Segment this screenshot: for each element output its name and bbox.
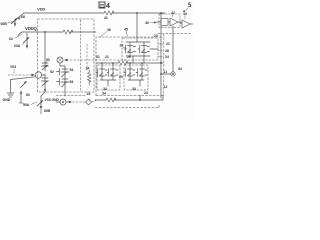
transistor cell3-L [124, 69, 135, 81]
cell3 down tick [139, 95, 141, 100]
svg-text:54: 54 [70, 68, 74, 72]
wire from pad down-left [11, 77, 36, 87]
VDD rail [24, 12, 165, 14]
transistor 50A (bottom left) [41, 92, 45, 108]
svg-text:54: 54 [70, 80, 74, 84]
svg-text:34: 34 [132, 87, 136, 91]
svg-text:60A: 60A [14, 44, 21, 48]
cell2 feeds [102, 63, 113, 69]
svg-text:VDD: VDD [37, 7, 45, 12]
mid rail [96, 62, 163, 64]
ground symbol far left [7, 87, 14, 97]
svg-text:34: 34 [103, 87, 107, 91]
VDDQ rail [22, 31, 96, 33]
buffer U1 [170, 18, 178, 26]
pad (filled) [171, 72, 175, 76]
cell3 bottom bus [128, 80, 144, 86]
wire [178, 22, 181, 24]
svg-text:28: 28 [165, 49, 169, 53]
svg-text:12: 12 [164, 85, 168, 89]
output node column [160, 62, 162, 64]
svg-text:31: 31 [96, 55, 100, 59]
node: junction on VDDQ [44, 31, 46, 33]
svg-text:GND: GND [3, 98, 11, 102]
dashed vertical control line 2 [86, 44, 88, 70]
wire pad up to receiver [172, 26, 174, 72]
pad circle (input V63) [35, 72, 41, 78]
cell2 bottom bus [100, 80, 116, 86]
svg-text:23: 23 [154, 34, 158, 38]
svg-text:34: 34 [102, 92, 106, 96]
cell1 bottom bus [126, 55, 150, 57]
wire chain x=65 [60, 63, 65, 69]
component 34 (vertical resistor) [88, 70, 91, 85]
svg-text:26: 26 [127, 55, 131, 59]
cell 2 dashed box [97, 65, 120, 90]
resistor (mid rail) [118, 61, 128, 65]
resistor (bottom rail) [106, 98, 116, 102]
svg-text:V63: V63 [10, 65, 16, 69]
svg-text:21: 21 [166, 42, 170, 46]
bottom pad circle [56, 101, 60, 103]
dashed top edge right segment [158, 33, 191, 35]
svg-text:54: 54 [178, 67, 182, 71]
dashed signal line to cells [67, 59, 128, 61]
svg-text:41: 41 [104, 16, 108, 20]
svg-text:34: 34 [86, 67, 90, 71]
svg-text:11: 11 [164, 70, 168, 74]
dashed box receiver [159, 14, 180, 28]
transistor arrow on left wire [21, 82, 27, 88]
transistor 54a [57, 69, 70, 80]
svg-text:VDDQ: VDDQ [25, 26, 38, 31]
svg-text:66B: 66B [1, 22, 8, 26]
cell1 output to right [150, 48, 158, 50]
transistor cell2-R [107, 69, 118, 81]
transistor 50 (upper, x=45) [42, 63, 49, 71]
svg-text:4: 4 [106, 3, 110, 10]
resistor (in VDDQ rail) [63, 30, 73, 34]
wire [168, 21, 170, 23]
cell3 feeds [130, 63, 142, 69]
svg-text:60: 60 [26, 93, 30, 97]
transistor cell1-R [138, 42, 150, 56]
pad circle 2 (node 50) [57, 57, 63, 63]
wire: left branch down [44, 32, 46, 63]
svg-text:50: 50 [46, 58, 50, 62]
svg-text:62: 62 [9, 37, 13, 41]
arrowhead input terminal [14, 23, 16, 26]
figure title 图4 [99, 2, 105, 8]
up arrow lead [20, 91, 22, 103]
transistor 54b [57, 79, 70, 97]
svg-text:24: 24 [165, 55, 169, 59]
wire: VDD left lead-in diagonal [15, 13, 24, 26]
svg-text:24: 24 [87, 92, 91, 96]
svg-text:36: 36 [107, 28, 111, 32]
cell 3 dashed box [124, 65, 148, 90]
diamond node [86, 99, 92, 105]
dashed box B (middle block 36) [96, 37, 163, 96]
svg-text:VSS GND: VSS GND [45, 98, 60, 102]
bottom rail (solid) [95, 95, 163, 100]
transistor cell2-L [96, 69, 107, 81]
buffer U2 [182, 20, 190, 28]
svg-text:21: 21 [105, 55, 109, 59]
svg-text:60B: 60B [44, 109, 51, 113]
arrow right [67, 101, 70, 103]
svg-text:68: 68 [21, 15, 25, 19]
cell1 top bus [126, 41, 150, 43]
dashed box A (left block) [38, 19, 95, 92]
transistor arrow stroke [24, 38, 30, 43]
svg-text:40: 40 [145, 21, 149, 25]
transistor cell3-R [136, 69, 147, 81]
dashed input arrow to pad [8, 74, 31, 76]
dashed to diamond [73, 101, 86, 103]
cell 1 dashed box [122, 38, 158, 60]
input arrow 60A branch [26, 33, 28, 48]
wire: VDDQ left lead-in [18, 32, 22, 36]
dashed continue [92, 101, 97, 103]
svg-text:50A: 50A [23, 103, 30, 107]
gate rect [161, 19, 168, 26]
transistor cell1-L [124, 42, 136, 56]
svg-text:52: 52 [50, 70, 54, 74]
svg-text:20: 20 [119, 75, 123, 79]
vertical feed x=137 from VDD [136, 12, 138, 14]
transistor 52 (lower, x=45) [42, 74, 49, 92]
dashed vertical control line [80, 20, 82, 92]
vertical feed x=161 from VDD [160, 12, 162, 14]
dashed outer bottom [95, 104, 159, 108]
input wire [157, 21, 161, 23]
dashed bottom edge (box B) [56, 95, 163, 97]
svg-text:24: 24 [144, 91, 148, 95]
resistor 41 (in VDD rail) [104, 11, 114, 15]
cell1 to mid rail [133, 56, 144, 63]
